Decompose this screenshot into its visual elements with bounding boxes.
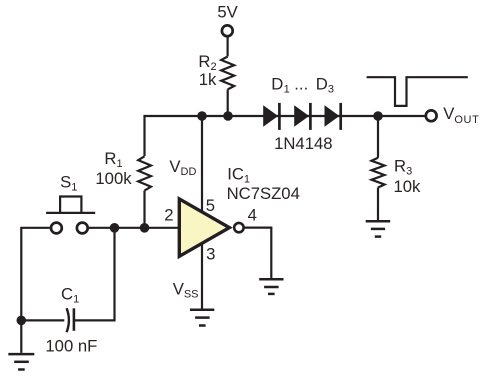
svg-text:3: 3: [206, 244, 215, 263]
resistor R3: [372, 158, 385, 188]
switch S1 left contact: [51, 223, 62, 234]
wire 5V to R2: [227, 37, 229, 57]
wire left of switch: [21, 228, 50, 321]
wire to C1 left plate: [21, 319, 64, 321]
diode D1: [263, 103, 279, 130]
svg-text:100k: 100k: [95, 169, 132, 188]
svg-text:1N4148: 1N4148: [274, 134, 332, 153]
terminal 5V: [222, 25, 233, 36]
wire C1 right plate: [74, 228, 115, 321]
wire R3: [377, 116, 379, 158]
switch S1 right contact: [77, 223, 88, 234]
node C1 ground junction: [17, 316, 27, 326]
ground VSS: [190, 310, 214, 326]
svg-text:2: 2: [164, 206, 173, 225]
wire R1 top: [143, 115, 145, 156]
svg-text:1k: 1k: [199, 70, 217, 89]
wire VDD pin 5: [201, 116, 203, 213]
node VDD junction: [197, 111, 207, 121]
svg-text:5: 5: [206, 196, 215, 215]
wire R1 bottom: [143, 191, 145, 228]
op-amp IC1 inverter triangle: [179, 199, 229, 256]
node R3 junction: [373, 111, 383, 121]
switch S1 actuator cap: [60, 197, 81, 213]
pulse waveform: [367, 77, 468, 106]
wire pin 4 to ground: [244, 228, 271, 279]
switch S1 bar: [46, 212, 95, 214]
capacitor C1 curved plate: [67, 308, 69, 332]
wire R2 bottom: [227, 89, 229, 116]
resistor R2: [221, 57, 234, 90]
capacitor C1 straight plate: [73, 308, 76, 331]
ground pin4: [259, 279, 283, 294]
svg-text:OUT: OUT: [454, 114, 479, 126]
svg-text:NC7SZ04: NC7SZ04: [227, 184, 300, 203]
ground left: [8, 354, 34, 369]
wire top rail: [145, 115, 425, 117]
wire junction to ground: [20, 320, 22, 353]
svg-text:D1...D3: D1...D3: [271, 75, 334, 96]
bubble output inverter: [234, 223, 243, 232]
node R2 junction: [223, 111, 233, 121]
node C1 junction: [110, 223, 120, 233]
resistor R1: [138, 156, 151, 190]
svg-text:V: V: [443, 104, 455, 123]
ground R3: [366, 221, 391, 236]
svg-text:5V: 5V: [217, 2, 238, 21]
svg-text:4: 4: [248, 206, 257, 225]
diode D3: [325, 103, 341, 130]
svg-text:100 nF: 100 nF: [45, 337, 97, 356]
svg-text:10k: 10k: [394, 177, 422, 196]
terminal VOUT: [426, 110, 437, 121]
diode D2: [294, 103, 310, 130]
wire input rail right of switch: [89, 227, 179, 229]
node R1 junction: [140, 223, 150, 233]
pin 3 wire: [201, 243, 203, 309]
wire R3 to ground: [377, 188, 379, 221]
